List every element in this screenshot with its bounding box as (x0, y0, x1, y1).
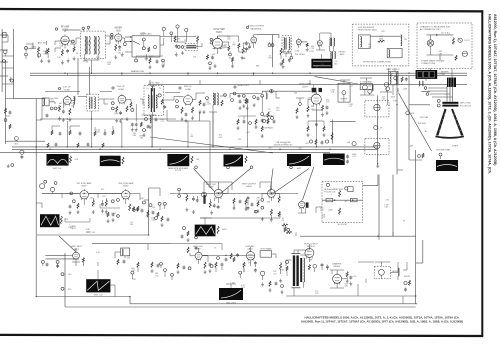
ground G12 (59, 117, 61, 119)
resistor R13 (242, 47, 244, 53)
resistor R6 (148, 47, 150, 52)
svg-text:.01: .01 (284, 144, 287, 146)
coil L2 (94, 36, 95, 54)
svg-text:.047: .047 (90, 197, 94, 199)
svg-text:2.2M: 2.2M (295, 51, 300, 53)
svg-text:RF AMP: RF AMP (61, 26, 70, 29)
coil cluster (130, 102, 132, 108)
comps near P10 (183, 227, 186, 230)
svg-text:FIL: FIL (405, 39, 408, 41)
wire ps drop a (396, 76, 398, 175)
svg-text:6SN7: 6SN7 (123, 186, 129, 188)
wire focus top (363, 185, 378, 187)
test point TP10 (229, 53, 232, 56)
test point TP17 (386, 87, 390, 91)
comps det extra (231, 99, 234, 102)
focus res v (339, 190, 341, 197)
probe line P7a (270, 169, 273, 193)
svg-text:470: 470 (150, 56, 153, 58)
deflection yoke bar 1 (442, 102, 458, 104)
wire vert bus ext (170, 243, 222, 245)
svg-text:270: 270 (193, 56, 196, 58)
peaking coils (266, 93, 267, 99)
svg-text:6AQ5/6005: 6AQ5/6005 (250, 27, 262, 30)
capacitor C16 (119, 111, 122, 113)
svg-text:C98: C98 (268, 58, 271, 60)
photo P4 resistor (122, 157, 124, 164)
sound coil 2 (329, 51, 332, 58)
photo P9 resistor (60, 216, 62, 224)
wire 3rd IF loop (166, 110, 168, 121)
svg-text:C9: C9 (281, 220, 283, 222)
svg-text:A812000, Run 1), 10T4A7, 10T3A: A812000, Run 1), 10T4A7, 10T3A7, 10T8A7 … (493, 14, 497, 166)
sound takeoff comps (145, 118, 148, 121)
svg-text:.01: .01 (452, 43, 455, 45)
tube V8 2nd IF (118, 94, 126, 105)
svg-text:AUDIO OUTPUT: AUDIO OUTPUT (248, 25, 265, 28)
circle comp 3 (158, 94, 161, 97)
wire left vertical feed (5, 60, 7, 144)
wire box A top (370, 35, 401, 37)
dark resistor (332, 120, 334, 144)
coil L8 (148, 95, 149, 108)
accessory box A dashed (352, 24, 409, 66)
svg-text:C43: C43 (298, 149, 301, 151)
svg-text:C86: C86 (439, 53, 442, 55)
svg-text:6CB6: 6CB6 (118, 89, 124, 91)
tuner box (3, 32, 7, 37)
capacitor C12 (462, 51, 467, 56)
wire crt h (330, 121, 356, 123)
IF transformer T4 (213, 93, 214, 105)
svg-text:AC OPERATION ONLY: AC OPERATION ONLY (420, 28, 441, 31)
4.5mc takeoff (140, 122, 142, 127)
resistor R2 (47, 48, 49, 54)
yoke connector (397, 88, 399, 92)
coil L1 (85, 36, 86, 54)
svg-text:C14: C14 (276, 110, 279, 112)
photo P8 (436, 160, 458, 171)
svg-text:6AU5: 6AU5 (74, 248, 80, 251)
tuner ground (9, 77, 11, 79)
svg-text:C55: C55 (352, 156, 355, 158)
width coil (398, 268, 399, 276)
comp cluster fb (308, 264, 310, 269)
svg-text:.01: .01 (86, 62, 89, 64)
svg-text:C81: C81 (118, 52, 121, 54)
wire crt socket chain (377, 95, 379, 163)
resistor R25 (181, 107, 183, 114)
tuner block edge (0, 34, 8, 36)
comp row bottom a (117, 259, 119, 265)
resistor R24 (126, 106, 128, 112)
tube V19 damper (333, 273, 342, 285)
box A inner coil box (358, 35, 370, 49)
resistor R34 (209, 201, 211, 208)
wire V3 plate (217, 36, 219, 38)
wire ps drop b (408, 76, 410, 160)
crt pin labels (424, 87, 427, 90)
svg-text:100K: 100K (391, 96, 396, 98)
capacitor C3 (66, 50, 69, 52)
resistor R1 (38, 47, 40, 53)
dark bar (203, 195, 205, 204)
svg-text:220K: 220K (46, 218, 51, 220)
resistor R27 (307, 106, 309, 112)
svg-text:FOCUS COIL: FOCUS COIL (460, 105, 472, 107)
circle comp 2 (384, 83, 388, 87)
comp row top (233, 92, 236, 95)
wire bottom-left vertical (64, 253, 66, 307)
svg-text:.047: .047 (368, 86, 372, 88)
resistor R4 (73, 47, 75, 52)
wire sync sub (100, 207, 120, 209)
wire hor osc link (202, 254, 246, 256)
wire crt stub (409, 104, 430, 106)
comp right of video (322, 105, 324, 111)
wire vert out bottom (200, 217, 280, 219)
test point TP1 (25, 47, 28, 50)
comp row B+ area (51, 130, 53, 135)
wire heater line 2 (148, 84, 467, 86)
vert osc small tube (202, 192, 207, 197)
svg-text:.047: .047 (379, 36, 383, 38)
svg-text:PILOT: PILOT (465, 40, 471, 42)
resistor R9 (228, 46, 230, 51)
svg-text:100K: 100K (114, 113, 119, 115)
wire left tall vertical (35, 99, 37, 297)
photo P11 (86, 279, 110, 292)
wire sync right vertical (148, 188, 150, 235)
svg-text:WIDTH: WIDTH (404, 276, 411, 278)
flyback wires (293, 288, 295, 296)
border frame right (481, 10, 483, 336)
test point TP4 (123, 43, 126, 46)
svg-text:C66: C66 (151, 220, 154, 222)
svg-text:470: 470 (344, 201, 347, 203)
test point TP13 (54, 107, 57, 110)
IF transformer T1 dashed box (81, 31, 106, 58)
wire AGC line (0, 151, 330, 153)
svg-text:C47: C47 (382, 99, 385, 101)
capacitor C15 (46, 114, 49, 116)
horiz trans box (260, 251, 272, 258)
ground G9 (280, 62, 282, 64)
capacitor C8 (245, 42, 248, 44)
ground G1 (41, 59, 43, 61)
ground G6 (232, 64, 234, 66)
svg-text:C90: C90 (146, 217, 149, 219)
capacitor C4 (118, 46, 121, 48)
circle comp (394, 77, 397, 80)
svg-text:C58: C58 (206, 102, 209, 104)
comps row4 mid (151, 262, 153, 268)
sync tube V12 (122, 189, 130, 200)
wire audio top (257, 34, 279, 36)
resistor R21 (59, 106, 61, 112)
svg-text:12BY7: 12BY7 (302, 86, 309, 88)
svg-text:1ST SYNC AMP: 1ST SYNC AMP (76, 182, 92, 185)
focus wire (322, 199, 363, 201)
coil L3 (284, 38, 285, 50)
capacitor C7 (245, 47, 248, 49)
wire right vert b (392, 175, 394, 237)
photo P10 circle (195, 236, 198, 239)
test point TP8 (185, 28, 188, 31)
svg-text:A91200D, Run 1), 10T4A7, 10T2A: A91200D, Run 1), 10T4A7, 10T2A7, 10T8A7 … (301, 320, 463, 324)
comp cluster ho (187, 247, 189, 253)
wire sync row left (42, 192, 80, 194)
wire sync link (88, 192, 121, 194)
svg-text:C17: C17 (268, 111, 271, 113)
wire row4 drop (164, 271, 166, 277)
capacitor C6 (211, 56, 214, 58)
wire sound takeoff diagonal (150, 137, 273, 153)
IF transformer T3 dashed box (144, 86, 163, 116)
wire IF plate line (45, 91, 80, 93)
trap coil (152, 86, 153, 91)
left col comps (5, 108, 7, 114)
capacitor C11 (288, 59, 291, 61)
ground G18 (377, 164, 379, 166)
svg-text:6U8: 6U8 (116, 30, 121, 32)
focus dashed box (322, 181, 363, 222)
svg-text:C28: C28 (331, 92, 334, 94)
svg-text:C77: C77 (222, 48, 225, 50)
resistor vm right (82, 258, 84, 263)
svg-text:C87: C87 (385, 207, 388, 209)
ground G14 (131, 128, 133, 130)
ground G10 (306, 47, 308, 49)
comp cluster mid (199, 100, 201, 106)
tuner component C1 (3, 50, 7, 54)
svg-text:6AQ5: 6AQ5 (246, 185, 252, 188)
capacitor C2 (45, 51, 48, 53)
resistor R16 (282, 59, 284, 65)
wire right vert a (378, 175, 380, 237)
vert osc tube V13 (214, 188, 222, 199)
wire sync row plate line (170, 192, 298, 194)
svg-text:270: 270 (386, 199, 389, 201)
brightness box (338, 83, 350, 102)
wire crt stub2 (421, 90, 430, 92)
svg-text:C42: C42 (162, 65, 165, 67)
resistor R5 (115, 44, 117, 51)
wire spkr (301, 41, 307, 43)
ground G20 (92, 210, 94, 212)
interlock plug black (416, 70, 438, 79)
svg-text:C84: C84 (133, 135, 136, 137)
hv cage wires (358, 261, 374, 263)
svg-text:P.M. SPKR: P.M. SPKR (295, 54, 305, 56)
photo P7b caps (346, 155, 349, 157)
resistor R17 (378, 40, 385, 42)
small transformer black (447, 78, 456, 88)
svg-text:3RD I.F.: 3RD I.F. (184, 86, 192, 88)
comps under video (307, 126, 309, 132)
comp left (178, 188, 181, 191)
flyback extra coils (300, 258, 302, 282)
sound takeoff coil dark (151, 88, 152, 112)
capacitor C17 (131, 123, 134, 125)
resistor R10 (232, 57, 234, 62)
ground G8 (241, 56, 243, 58)
svg-text:470: 470 (101, 189, 104, 191)
svg-text:.1: .1 (330, 194, 332, 196)
resistor R19 (455, 55, 457, 60)
svg-text:PHONO INPUT CONNECTIONS: PHONO INPUT CONNECTIONS (363, 61, 391, 63)
hor comps (210, 265, 213, 268)
comp cluster crt a (363, 85, 368, 90)
wire damper top (336, 270, 338, 274)
svg-text:C35: C35 (227, 39, 230, 41)
tube V18 hor output (305, 247, 314, 259)
svg-text:C40: C40 (68, 274, 71, 276)
photo P5 (167, 154, 189, 166)
svg-text:HOR 1-7875: HOR 1-7875 (226, 303, 236, 305)
svg-text:HALLICRAFTERS MODELS 1050, A (: HALLICRAFTERS MODELS 1050, A (Ch. AL1200… (487, 14, 491, 174)
capacitor C9 (248, 45, 251, 47)
svg-text:C34: C34 (256, 200, 259, 202)
test point TP16 (270, 89, 274, 93)
svg-text:CORD: CORD (440, 74, 446, 76)
vert osc trans box (121, 248, 130, 256)
svg-text:.005: .005 (314, 93, 318, 95)
capacitor C20 (101, 203, 104, 205)
svg-text:VERT 1-30: VERT 1-30 (94, 295, 103, 297)
wire box B bus (426, 34, 453, 36)
test point TP3 (82, 27, 84, 29)
resistor R8 (197, 36, 199, 42)
tube V10 video amp (311, 93, 321, 106)
test point TP14 (111, 102, 114, 105)
wire B+ bus lower (12, 148, 378, 150)
tube V16 hor osc (195, 251, 202, 261)
svg-text:C18: C18 (87, 44, 90, 46)
wire vert bus (92, 243, 170, 245)
svg-text:C61: C61 (190, 136, 193, 138)
hv rect dashed box (374, 266, 390, 279)
wire bottom bus right (286, 295, 416, 297)
svg-text:C98: C98 (43, 53, 46, 55)
test point TP9 (178, 46, 181, 49)
resistor R11 (207, 55, 209, 60)
svg-text:C90: C90 (96, 132, 99, 134)
svg-text:HOR AFC: HOR AFC (245, 245, 255, 248)
ground G2 (61, 60, 63, 62)
svg-text:L7: L7 (351, 86, 353, 88)
photo P1 response curve (311, 59, 332, 68)
svg-text:POWER TRANS. PRIMARY: POWER TRANS. PRIMARY (421, 60, 445, 63)
ground G5 (175, 52, 177, 54)
svg-text:C34: C34 (50, 101, 53, 103)
probe circles (227, 166, 230, 169)
sync tube V11 (80, 189, 88, 200)
wire vm (45, 254, 65, 256)
svg-text:C55: C55 (96, 59, 99, 61)
wire mesh stitches (28, 47, 36, 49)
svg-text:VERT 1-30: VERT 1-30 (53, 168, 62, 170)
resistor R26 (192, 107, 194, 113)
AGC input arrows (125, 36, 132, 38)
svg-text:C66: C66 (140, 138, 143, 140)
svg-text:C68: C68 (368, 46, 371, 48)
capacitor C18 (185, 113, 188, 115)
test point TP7 (176, 25, 179, 28)
photo P3 resistor (70, 156, 72, 163)
wire vert step (129, 297, 131, 304)
test point TP18 (374, 126, 378, 130)
tube V5 ratio det (296, 38, 301, 46)
photo P7b (323, 154, 345, 166)
comps contrast (262, 119, 265, 122)
comp cluster vm (41, 260, 44, 263)
svg-text:C71: C71 (311, 108, 314, 110)
svg-text:.1: .1 (216, 102, 218, 104)
crt neck wires (446, 86, 448, 102)
svg-text:ANT. 300: ANT. 300 (38, 42, 47, 45)
svg-text:WITH PHONO JACK: WITH PHONO JACK (358, 29, 377, 32)
AGC comps a (15, 137, 19, 141)
agc box lower comps (135, 59, 138, 62)
test point TP11 (209, 62, 212, 65)
svg-text:220K: 220K (283, 227, 288, 229)
resistor R40 (204, 262, 206, 269)
svg-text:2ND SYNC AMP: 2ND SYNC AMP (118, 182, 134, 185)
resistor R15 (306, 43, 308, 47)
svg-text:1ST I.F.: 1ST I.F. (63, 87, 71, 89)
tube V15 vert mult (73, 251, 80, 260)
video det chain (261, 96, 263, 112)
svg-text:DAMPER: DAMPER (333, 262, 342, 265)
junction dots (64, 73, 65, 74)
crt small comps (418, 155, 421, 158)
test point TP20 (70, 192, 73, 195)
resistor R7 (174, 36, 176, 42)
svg-text:C61: C61 (127, 258, 130, 260)
svg-text:C10: C10 (71, 105, 74, 107)
contrast control dashed box (185, 43, 198, 51)
res cluster right (282, 224, 288, 226)
box A speaker box (387, 48, 402, 57)
coil L7 (89, 97, 90, 109)
ion trap comp (352, 142, 356, 146)
svg-text:VERT OUTPUT: VERT OUTPUT (242, 183, 257, 185)
wire bottom tube tops (198, 248, 200, 252)
resistor R20 (401, 77, 403, 82)
wire top link (160, 36, 196, 38)
ground G4 (145, 57, 147, 59)
comp near crt (406, 111, 410, 115)
svg-text:17BP4: 17BP4 (452, 146, 459, 148)
svg-text:6SN7: 6SN7 (81, 186, 87, 188)
svg-text:2ND I.F.: 2ND I.F. (117, 86, 125, 88)
coil L5 choke (401, 35, 402, 46)
resistor R3 (61, 49, 63, 56)
svg-text:DEFL YOKE: DEFL YOKE (460, 102, 471, 104)
svg-text:C85: C85 (130, 224, 133, 226)
svg-text:MIXER: MIXER (115, 28, 123, 30)
svg-text:R75: R75 (68, 289, 71, 291)
svg-text:.047: .047 (246, 132, 250, 134)
IF input coil box (42, 98, 49, 106)
left partial tube (40, 184, 45, 189)
svg-text:100K: 100K (54, 98, 59, 100)
wire det vertical (209, 121, 211, 188)
wire osc feedback (218, 182, 220, 189)
ground G11 (282, 65, 284, 67)
photo P6 (224, 155, 244, 167)
